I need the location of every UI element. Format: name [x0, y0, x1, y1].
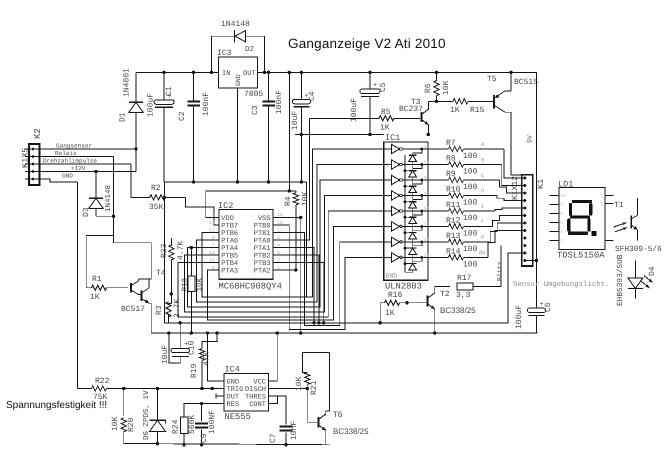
svg-text:OUT: OUT: [243, 70, 256, 78]
svg-text:NE555: NE555: [225, 412, 251, 422]
svg-text:100: 100: [463, 260, 478, 269]
svg-text:1K: 1K: [380, 124, 390, 133]
svg-text:C2: C2: [178, 111, 187, 121]
svg-text:6: 6: [386, 224, 389, 230]
svg-text:D4: D4: [648, 266, 657, 276]
svg-text:D1: D1: [119, 112, 128, 122]
svg-text:R18: R18: [181, 278, 190, 292]
svg-text:K1: K1: [536, 179, 546, 189]
svg-text:R20: R20: [127, 417, 136, 432]
svg-text:10nF: 10nF: [290, 421, 299, 440]
svg-text:R5: R5: [381, 108, 391, 117]
svg-text:R22: R22: [95, 377, 110, 386]
svg-text:LD1: LD1: [558, 180, 573, 190]
svg-text:GND: GND: [386, 273, 398, 280]
svg-text:5: 5: [386, 209, 389, 215]
svg-text:IC1: IC1: [385, 133, 400, 143]
svg-text:Spannungsfestigkeit !!!: Spannungsfestigkeit !!!: [6, 400, 107, 411]
svg-text:1N4148: 1N4148: [221, 20, 250, 29]
svg-text:10K: 10K: [111, 416, 120, 431]
svg-text:1K: 1K: [90, 293, 100, 302]
svg-text:R7: R7: [446, 139, 456, 148]
svg-text:100nF: 100nF: [202, 92, 211, 116]
svg-text:4: 4: [386, 194, 389, 200]
svg-text:K2: K2: [33, 128, 43, 139]
svg-text:BC517: BC517: [121, 305, 145, 314]
svg-text:BC338/25: BC338/25: [440, 306, 476, 315]
svg-text:Relais: Relais: [55, 150, 77, 157]
svg-text:IC2: IC2: [218, 201, 233, 211]
svg-text:100: 100: [463, 183, 478, 192]
svg-text:R15: R15: [470, 106, 485, 115]
svg-text:C1: C1: [165, 86, 174, 96]
svg-text:7: 7: [601, 195, 604, 200]
svg-text:R24: R24: [172, 419, 181, 434]
svg-text:D3: D3: [82, 207, 91, 217]
svg-text:T4: T4: [156, 269, 166, 278]
svg-text:C5: C5: [379, 82, 388, 92]
svg-text:9: 9: [560, 202, 563, 208]
svg-text:IN: IN: [222, 70, 230, 78]
svg-text:T2: T2: [440, 290, 450, 299]
svg-text:K1X12: K1X12: [511, 176, 520, 200]
svg-text:CONT: CONT: [249, 401, 266, 409]
svg-text:1K: 1K: [385, 309, 395, 318]
svg-text:G: G: [481, 234, 484, 241]
svg-text:C10: C10: [188, 340, 197, 355]
svg-text:T6: T6: [333, 410, 343, 419]
svg-text:6: 6: [601, 201, 604, 207]
svg-text:5: 5: [560, 221, 563, 226]
svg-text:GND: GND: [235, 74, 242, 86]
svg-text:D2: D2: [245, 45, 254, 54]
svg-text:R19: R19: [190, 363, 199, 378]
svg-text:MC68HC908QY4: MC68HC908QY4: [219, 282, 282, 292]
svg-text:100uF: 100uF: [515, 305, 524, 329]
svg-text:+: +: [373, 82, 377, 90]
svg-text:7: 7: [386, 240, 389, 246]
svg-text:100: 100: [463, 229, 478, 238]
svg-text:GND: GND: [62, 173, 73, 180]
svg-text:100: 100: [463, 245, 478, 254]
svg-text:5V: 5V: [527, 135, 534, 143]
svg-text:100NF: 100NF: [208, 410, 217, 434]
svg-text:10: 10: [560, 193, 566, 199]
svg-text:BC338/25: BC338/25: [333, 427, 369, 436]
svg-text:IC4: IC4: [225, 365, 240, 375]
svg-text:T5: T5: [487, 75, 497, 84]
svg-text:100nF: 100nF: [275, 90, 284, 114]
svg-text:2: 2: [560, 238, 563, 244]
svg-text:1K: 1K: [450, 106, 460, 115]
svg-text:R9: R9: [446, 170, 456, 179]
svg-text:100: 100: [463, 199, 478, 208]
svg-text:35K: 35K: [149, 203, 164, 212]
svg-text:C3: C3: [251, 105, 260, 115]
svg-text:R6: R6: [424, 83, 433, 93]
svg-text:R21: R21: [310, 380, 319, 395]
svg-text:Sensor Umgebungslicht.: Sensor Umgebungslicht.: [513, 280, 609, 289]
svg-text:10K: 10K: [295, 376, 304, 391]
svg-text:R11: R11: [446, 201, 461, 210]
svg-text:10K: 10K: [442, 80, 451, 95]
svg-text:4: 4: [560, 230, 563, 235]
svg-text:100: 100: [463, 168, 478, 177]
svg-text:R17: R17: [457, 274, 472, 283]
svg-text:T1: T1: [614, 201, 624, 210]
svg-text:C6: C6: [544, 302, 553, 312]
svg-text:100: 100: [463, 214, 478, 223]
svg-text:3: 3: [386, 178, 389, 184]
svg-text:3,3: 3,3: [456, 291, 471, 300]
svg-text:K1X5: K1X5: [21, 148, 31, 168]
svg-text:13: 13: [209, 220, 215, 226]
svg-text:10K: 10K: [301, 191, 310, 206]
svg-text:100: 100: [463, 152, 478, 161]
svg-text:PTA3: PTA3: [221, 268, 238, 276]
svg-text:BC515: BC515: [514, 78, 538, 87]
svg-text:1N4001: 1N4001: [123, 68, 132, 97]
svg-text:EHB5393/SUB: EHB5393/SUB: [616, 254, 625, 306]
svg-text:R23: R23: [160, 243, 169, 258]
svg-text:2.7K: 2.7K: [173, 299, 182, 318]
svg-text:BC237: BC237: [399, 105, 423, 114]
svg-text:7805: 7805: [244, 90, 263, 99]
svg-text:C4: C4: [308, 91, 317, 101]
svg-text:R10: R10: [446, 186, 461, 195]
svg-text:RES: RES: [227, 401, 240, 409]
svg-text:8: 8: [386, 255, 389, 261]
svg-text:C7: C7: [269, 433, 278, 443]
svg-text:R14: R14: [446, 247, 461, 256]
svg-text:8: 8: [560, 211, 563, 217]
svg-text:1: 1: [386, 147, 389, 153]
svg-text:R4: R4: [284, 196, 293, 206]
svg-text:+12V: +12V: [71, 165, 86, 172]
svg-text:R12: R12: [446, 216, 461, 225]
svg-text:ULN2803: ULN2803: [385, 282, 422, 292]
svg-text:R1: R1: [92, 275, 102, 284]
svg-text:R3: R3: [155, 305, 164, 315]
svg-text:Drehzahlimpulse: Drehzahlimpulse: [43, 158, 97, 165]
svg-text:TDSL5150A: TDSL5150A: [557, 251, 605, 261]
svg-text:R2: R2: [151, 184, 161, 193]
svg-text:R16: R16: [388, 291, 403, 300]
svg-text:100uF: 100uF: [147, 93, 156, 117]
svg-text:SFH309-5/6: SFH309-5/6: [615, 245, 662, 254]
svg-text:10uF: 10uF: [161, 345, 170, 364]
svg-text:F: F: [481, 218, 484, 225]
svg-text:R8: R8: [446, 155, 456, 164]
svg-text:1N4148: 1N4148: [104, 185, 113, 212]
svg-text:R13: R13: [446, 232, 461, 241]
svg-text:Ganganzeige V2 Ati 2010: Ganganzeige V2 Ati 2010: [288, 36, 446, 51]
svg-text:2: 2: [386, 163, 389, 169]
svg-text:PTA2: PTA2: [254, 268, 271, 276]
svg-text:D6 ZPD5, 1V: D6 ZPD5, 1V: [142, 390, 151, 440]
svg-text:dp: dp: [479, 249, 486, 256]
svg-text:Gangsensor: Gangsensor: [56, 143, 92, 150]
svg-text:10uF: 10uF: [291, 111, 300, 130]
svg-text:Blitz: Blitz: [497, 261, 504, 281]
